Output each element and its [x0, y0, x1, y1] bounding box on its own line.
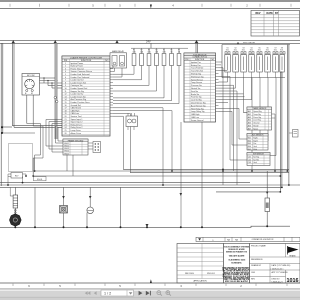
svg-text:Accel Sensor Sig: Accel Sensor Sig	[191, 104, 205, 107]
svg-text:8: 8	[65, 82, 66, 84]
svg-text:SCHEMATIC: SCHEMATIC	[231, 262, 242, 265]
svg-text:A05: A05	[248, 122, 251, 125]
svg-text:Spare Input 2: Spare Input 2	[71, 121, 84, 124]
svg-text:Spare: Spare	[253, 128, 258, 130]
wire bundle table1 to ground table	[27, 120, 63, 159]
wire pair bus to J2	[196, 43, 198, 53]
svg-text:Gnd: Gnd	[253, 146, 256, 148]
svg-text:10: 10	[64, 88, 66, 90]
wire pair down mid-left	[33, 158, 34, 176]
svg-text:TRANS SENSOR: TRANS SENSOR	[252, 107, 267, 110]
wire pair from bus to lower-left	[12, 43, 62, 127]
svg-text:Ground: Ground	[253, 123, 259, 125]
svg-text:Sensor Common Return: Sensor Common Return	[71, 70, 93, 73]
node junctions on top bus	[12, 40, 239, 44]
last page button	[146, 291, 150, 296]
bottom ground bus	[0, 226, 290, 227]
next page button	[139, 291, 143, 296]
svg-text:ELEC: ELEC	[229, 260, 234, 262]
zoom out icon	[157, 291, 161, 295]
node dots mid buses	[32, 169, 290, 193]
svg-text:SPEC 100-001 REV A APPLY: SPEC 100-001 REV A APPLY	[225, 280, 249, 283]
centerline mark bottom	[150, 279, 152, 283]
svg-text:RLY: RLY	[15, 176, 19, 178]
svg-text:Feeder Position Sens: Feeder Position Sens	[71, 101, 90, 104]
svg-text:Seat Sw: Seat Sw	[191, 90, 199, 93]
svg-text:B01: B01	[248, 138, 251, 140]
svg-text:Feeder Fwd Solenoid: Feeder Fwd Solenoid	[71, 74, 90, 76]
svg-text:Shld: Shld	[253, 149, 257, 151]
connector table J1 (Loader Feeder Controller)	[62, 56, 110, 136]
svg-text:( 2008-10-21 ): ( 2008-10-21 )	[271, 268, 284, 270]
svg-text:CAN Low: CAN Low	[191, 116, 200, 119]
svg-text:SOL: SOL	[234, 49, 237, 51]
long wires solenoids down	[244, 78, 277, 172]
svg-text:Spare Input 1: Spare Input 1	[71, 118, 84, 121]
connector face view	[93, 142, 101, 153]
svg-text:Lamp Relay Sig: Lamp Relay Sig	[191, 111, 204, 113]
svg-text:REF DWG: REF DWG	[185, 273, 194, 275]
svg-text:Park Sw Sig: Park Sw Sig	[191, 96, 201, 99]
centerline mark top	[150, 5, 152, 9]
svg-text:1: 1	[65, 63, 66, 65]
svg-text:SOL: SOL	[226, 49, 229, 51]
svg-text:SW SENSOR: SW SENSOR	[253, 154, 265, 156]
svg-text:Aux Pressure Sig: Aux Pressure Sig	[71, 98, 86, 101]
page number field	[101, 290, 134, 296]
svg-text:BRAND: BRAND	[289, 255, 296, 258]
svg-text:Speed Sensor: Speed Sensor	[191, 78, 203, 81]
border grid ticks bottom	[13, 284, 287, 286]
wire ladder fuse row to J1 pins	[113, 66, 157, 92]
svg-text:DRAWN BY: DRAWN BY	[251, 264, 262, 267]
svg-text:REV: REV	[256, 12, 261, 15]
svg-text:TAILGATE ALARM: TAILGATE ALARM	[229, 255, 245, 258]
hydraulic valve enclosure	[222, 45, 290, 78]
relay K2 on bus	[8, 173, 26, 186]
svg-text:Level Sig: Level Sig	[253, 120, 260, 122]
svg-text:3: 3	[65, 68, 66, 70]
svg-text:15: 15	[64, 102, 66, 104]
svg-text:14: 14	[64, 99, 66, 101]
svg-text:Shift Up Sig: Shift Up Sig	[191, 73, 201, 76]
svg-text:B04: B04	[248, 146, 251, 148]
svg-text:WIRING: WIRING	[233, 260, 240, 262]
svg-text:17: 17	[64, 108, 66, 110]
wire pair gray vertical	[55, 43, 58, 139]
resistor R1	[10, 187, 18, 208]
sensor table T5	[247, 153, 270, 166]
svg-text:18: 18	[64, 110, 66, 112]
svg-text:24V: 24V	[146, 40, 151, 44]
svg-text:Lamp Drive: Lamp Drive	[71, 130, 82, 132]
svg-text:Feeder Speed Dial: Feeder Speed Dial	[71, 88, 88, 90]
svg-text:B02: B02	[248, 140, 251, 142]
svg-text:Sw Rtn: Sw Rtn	[253, 158, 259, 161]
border grid numbers top	[92, 4, 248, 8]
svg-text:Ignition Power: Ignition Power	[71, 62, 84, 65]
lamp L1	[87, 187, 94, 227]
svg-text:23: 23	[64, 124, 66, 126]
svg-text:Pressure Sw: Pressure Sw	[191, 84, 202, 87]
svg-text:Loader Down Sol: Loader Down Sol	[71, 82, 87, 84]
first page button	[85, 291, 97, 295]
relay K1 block	[110, 50, 127, 68]
node dots left	[1, 126, 3, 134]
svg-text:Trans Fwd Sol: Trans Fwd Sol	[191, 67, 204, 70]
pin stubs right of table J1	[110, 63, 113, 116]
ground arrow mark	[146, 224, 149, 227]
svg-text:BY: BY	[275, 12, 279, 15]
svg-text:APP YYYY-MM-DD: APP YYYY-MM-DD	[272, 271, 289, 274]
label box LB1	[34, 177, 47, 181]
svg-text:B05: B05	[248, 149, 251, 151]
svg-text:25: 25	[64, 130, 66, 132]
right vertical wire pairs	[280, 45, 289, 192]
pin stubs right of J2	[216, 62, 219, 111]
svg-text:Relay Drive 1: Relay Drive 1	[71, 124, 84, 126]
svg-text:Frame Ground: Frame Ground	[191, 119, 203, 122]
svg-text:Brake Sw: Brake Sw	[191, 93, 200, 96]
sheet top border line	[0, 8, 300, 10]
strip row above title block	[196, 237, 300, 241]
svg-text:SOL: SOL	[274, 49, 277, 51]
svg-text:A03: A03	[248, 116, 251, 119]
svg-text:SOL: SOL	[266, 49, 269, 51]
svg-text:21: 21	[64, 119, 66, 121]
svg-text:DIAG: DIAG	[241, 259, 246, 262]
node dots key switch	[43, 77, 57, 83]
svg-text:DATE (YYYY-MM-DD): DATE (YYYY-MM-DD)	[272, 264, 291, 267]
svg-text:Battery Pwr: Battery Pwr	[191, 64, 201, 67]
solenoid valves SOL1-8	[226, 47, 284, 51]
wire ground table to connector	[88, 143, 93, 149]
connector bullets on vertical pair	[54, 96, 56, 98]
solenoid bottom pins	[228, 72, 283, 78]
ground table below J1	[63, 139, 88, 155]
svg-text:A04: A04	[248, 119, 251, 122]
svg-text:Loader Up Sol: Loader Up Sol	[71, 80, 84, 82]
svg-text:4: 4	[65, 71, 66, 73]
svg-text:SOL: SOL	[258, 49, 261, 51]
svg-text:Shift Down Sig: Shift Down Sig	[191, 75, 203, 78]
svg-text:GND4: GND4	[64, 151, 69, 153]
svg-text:CAN Low: CAN Low	[71, 112, 80, 115]
fuse F8 right	[265, 171, 270, 226]
svg-text:FS-01: FS-01	[37, 179, 43, 181]
svg-text:Hopper Sw Sig: Hopper Sw Sig	[71, 91, 84, 93]
svg-text:7: 7	[65, 80, 66, 82]
svg-text:CAN Shield: CAN Shield	[71, 107, 81, 110]
svg-text:2: 2	[65, 66, 66, 68]
motor M1	[9, 208, 21, 227]
svg-text:26: 26	[64, 133, 66, 135]
solenoid block SOL-A	[126, 113, 138, 130]
svg-text:Conveyor Sw: Conveyor Sw	[71, 85, 83, 87]
wire left edge pair	[1, 43, 35, 186]
svg-text:APPLICATION: APPLICATION	[193, 280, 207, 283]
junction box lower left	[9, 144, 33, 172]
svg-text:19: 19	[64, 113, 66, 115]
svg-text:12: 12	[64, 94, 66, 96]
long vertical wires center	[113, 66, 202, 228]
svg-text:DWG NO: DWG NO	[272, 278, 281, 280]
svg-text:FUNCTION: FUNCTION	[195, 59, 205, 61]
svg-text:DATE: DATE	[267, 12, 274, 15]
svg-text:C03: C03	[248, 162, 251, 164]
svg-text:24: 24	[64, 127, 66, 129]
svg-text:Sw Sig: Sw Sig	[253, 157, 259, 159]
svg-text:9: 9	[65, 85, 66, 87]
buzzer H1	[60, 187, 68, 227]
node dots relay	[7, 175, 27, 186]
svg-text:SOL: SOL	[280, 49, 283, 51]
svg-text:11: 11	[65, 91, 67, 93]
svg-text:16: 16	[64, 105, 66, 107]
right edge component	[289, 130, 298, 138]
sheet bottom border line	[0, 282, 300, 284]
svg-text:22: 22	[64, 122, 66, 124]
svg-text:9W-1024: 9W-1024	[207, 273, 215, 275]
svg-text:MAIN RELAY: MAIN RELAY	[112, 50, 125, 53]
power bus top pair	[0, 40, 300, 43]
svg-text:A07: A07	[248, 127, 251, 130]
title block application table	[177, 244, 224, 284]
svg-text:VOLVO ASSEMBLY SYSTEMS: VOLVO ASSEMBLY SYSTEMS	[224, 246, 250, 249]
svg-text:Press Sig: Press Sig	[253, 117, 261, 119]
svg-text:Feeder Rev Solenoid: Feeder Rev Solenoid	[71, 77, 90, 79]
wire drop x120	[120, 187, 122, 227]
svg-text:Gnd: Gnd	[253, 162, 256, 164]
svg-text:Service Tool: Service Tool	[71, 116, 82, 118]
svg-text:A02: A02	[248, 113, 251, 116]
svg-text:SOL: SOL	[250, 49, 253, 51]
connector bullets above motor	[14, 209, 16, 211]
wire ladder solenoids to J2	[219, 62, 252, 185]
wires from key switch right	[40, 78, 63, 88]
svg-text:Lock Sol Sig: Lock Sol Sig	[191, 100, 202, 102]
node dots bottom bus	[14, 225, 268, 228]
arrow on wire x181	[180, 193, 183, 196]
svg-text:Temp Sensor: Temp Sensor	[191, 81, 203, 84]
key switch S1	[22, 74, 40, 96]
svg-text:Frame Ground: Frame Ground	[71, 68, 84, 70]
svg-text:Loader Up Sw: Loader Up Sw	[71, 94, 84, 96]
svg-text:20: 20	[64, 116, 66, 118]
svg-text:Ignition Pwr: Ignition Pwr	[191, 61, 201, 64]
viewer top gray band	[0, 0, 300, 2]
border grid ticks top	[10, 4, 291, 7]
svg-text:Ground Ref: Ground Ref	[71, 105, 82, 107]
svg-text:Loader Down Sw: Loader Down Sw	[71, 96, 87, 98]
svg-text:Neutral Sw: Neutral Sw	[191, 87, 201, 90]
svg-text:OPERATOR & MONITOR: OPERATOR & MONITOR	[252, 238, 274, 241]
svg-text:AUX SENSOR: AUX SENSOR	[252, 134, 264, 137]
title block company text	[222, 244, 252, 284]
svg-text:Speed Sig: Speed Sig	[253, 111, 261, 113]
mid bus wires	[0, 169, 300, 192]
svg-text:KEY SW: KEY SW	[27, 75, 35, 77]
svg-text:GND5: GND5	[64, 153, 69, 155]
connector table J2 (TCM)	[184, 53, 216, 122]
svg-text:13: 13	[64, 96, 66, 98]
svg-text:CAN High: CAN High	[191, 113, 199, 116]
svg-text:Temp Sig: Temp Sig	[253, 114, 260, 116]
wire ground table drops	[67, 155, 73, 176]
title block right fields	[250, 244, 301, 285]
svg-text:Pwr: Pwr	[253, 143, 256, 145]
svg-text:PROJECT NAME: PROJECT NAME	[251, 244, 267, 247]
svg-text:C01: C01	[248, 157, 251, 159]
svg-text:Decel Sensor Sig: Decel Sensor Sig	[191, 102, 206, 105]
svg-text:Battery Power: Battery Power	[71, 65, 84, 68]
fuse row F1-F7	[131, 48, 188, 65]
svg-text:6: 6	[65, 77, 66, 79]
svg-text:CAN High: CAN High	[71, 109, 80, 112]
stubs T3	[244, 113, 276, 171]
wires from key switch bottom	[27, 95, 33, 126]
svg-text:Horn Relay Sig: Horn Relay Sig	[191, 107, 204, 110]
svg-text:REFERENCE: REFERENCE	[251, 259, 263, 261]
sensor table T3	[247, 107, 272, 130]
svg-text:HYD VALVE: HYD VALVE	[243, 42, 255, 45]
zoom in icon	[166, 291, 170, 295]
svg-text:B03: B03	[248, 143, 251, 145]
wire drop x35	[34, 187, 36, 227]
svg-text:A06: A06	[248, 125, 251, 128]
svg-text:LOADER FEEDER CONTROLLER: LOADER FEEDER CONTROLLER	[70, 57, 103, 60]
svg-text:Trans Rev Sol: Trans Rev Sol	[191, 70, 203, 73]
border grid numbers bottom	[28, 284, 242, 288]
sensor table T4	[247, 134, 268, 151]
svg-text:A01: A01	[248, 110, 251, 113]
svg-text:C02: C02	[248, 159, 251, 161]
svg-text:Shield: Shield	[253, 126, 258, 128]
svg-text:SOL: SOL	[242, 49, 245, 51]
svg-text:5: 5	[65, 74, 66, 76]
svg-text:Relay Drive 2: Relay Drive 2	[71, 127, 84, 129]
svg-text:DESIGN OF A NEW: DESIGN OF A NEW	[228, 248, 245, 251]
svg-text:1 / 2: 1 / 2	[104, 291, 111, 295]
svg-text:Alarm Drive: Alarm Drive	[71, 132, 82, 135]
svg-text:SERIES 90 FEEDER SYS: SERIES 90 FEEDER SYS	[226, 252, 248, 254]
svg-text:NO: NO	[105, 60, 108, 62]
viewer toolbar	[0, 288, 300, 300]
revision table	[251, 10, 300, 36]
company logo flag	[288, 247, 299, 254]
